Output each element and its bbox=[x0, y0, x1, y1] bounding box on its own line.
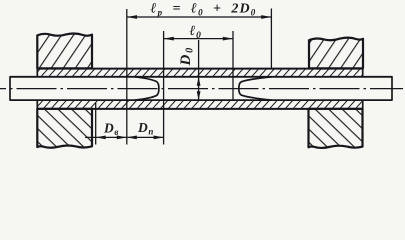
extension line l0-right bbox=[232, 31, 234, 100]
dimension line l0 bbox=[164, 38, 233, 40]
right rod ogive tip bbox=[239, 77, 272, 100]
wall block lower-left bbox=[37, 109, 92, 148]
extension line l0-left bbox=[163, 31, 165, 145]
rod left end face bbox=[9, 76, 11, 101]
bottom dimension line Dv / Dp bbox=[85, 136, 164, 138]
wall block upper-right bbox=[309, 38, 363, 69]
tube wall hatched band top bbox=[37, 69, 362, 76]
extension line at wall face (bottom dim) bbox=[95, 103, 97, 145]
svg-text:ℓp = ℓ0 + 2D0: ℓp = ℓ0 + 2D0 bbox=[151, 2, 257, 18]
tube outer top line bbox=[37, 68, 362, 70]
left rod ogive tip bbox=[135, 77, 159, 100]
bore / rod bottom line bbox=[10, 99, 392, 101]
extension line lp-left / bottom divider bbox=[126, 9, 128, 145]
extension line lp-right bbox=[270, 9, 272, 69]
bore / rod top line bbox=[10, 76, 392, 78]
rod right end face bbox=[391, 76, 393, 101]
wall block lower-right bbox=[309, 109, 363, 148]
dimension line lp bbox=[127, 16, 272, 18]
centerline (dash-dot axis) bbox=[0, 88, 403, 90]
tube left end edges bbox=[36, 68, 38, 78]
tube wall hatched band bottom bbox=[37, 101, 362, 108]
dimension line D0 (vertical, bore) bbox=[198, 40, 200, 100]
wall block upper-left bbox=[37, 34, 92, 69]
paper background bbox=[0, 0, 405, 153]
tube right end edges bbox=[362, 68, 364, 78]
tube outer bottom line bbox=[37, 108, 362, 110]
